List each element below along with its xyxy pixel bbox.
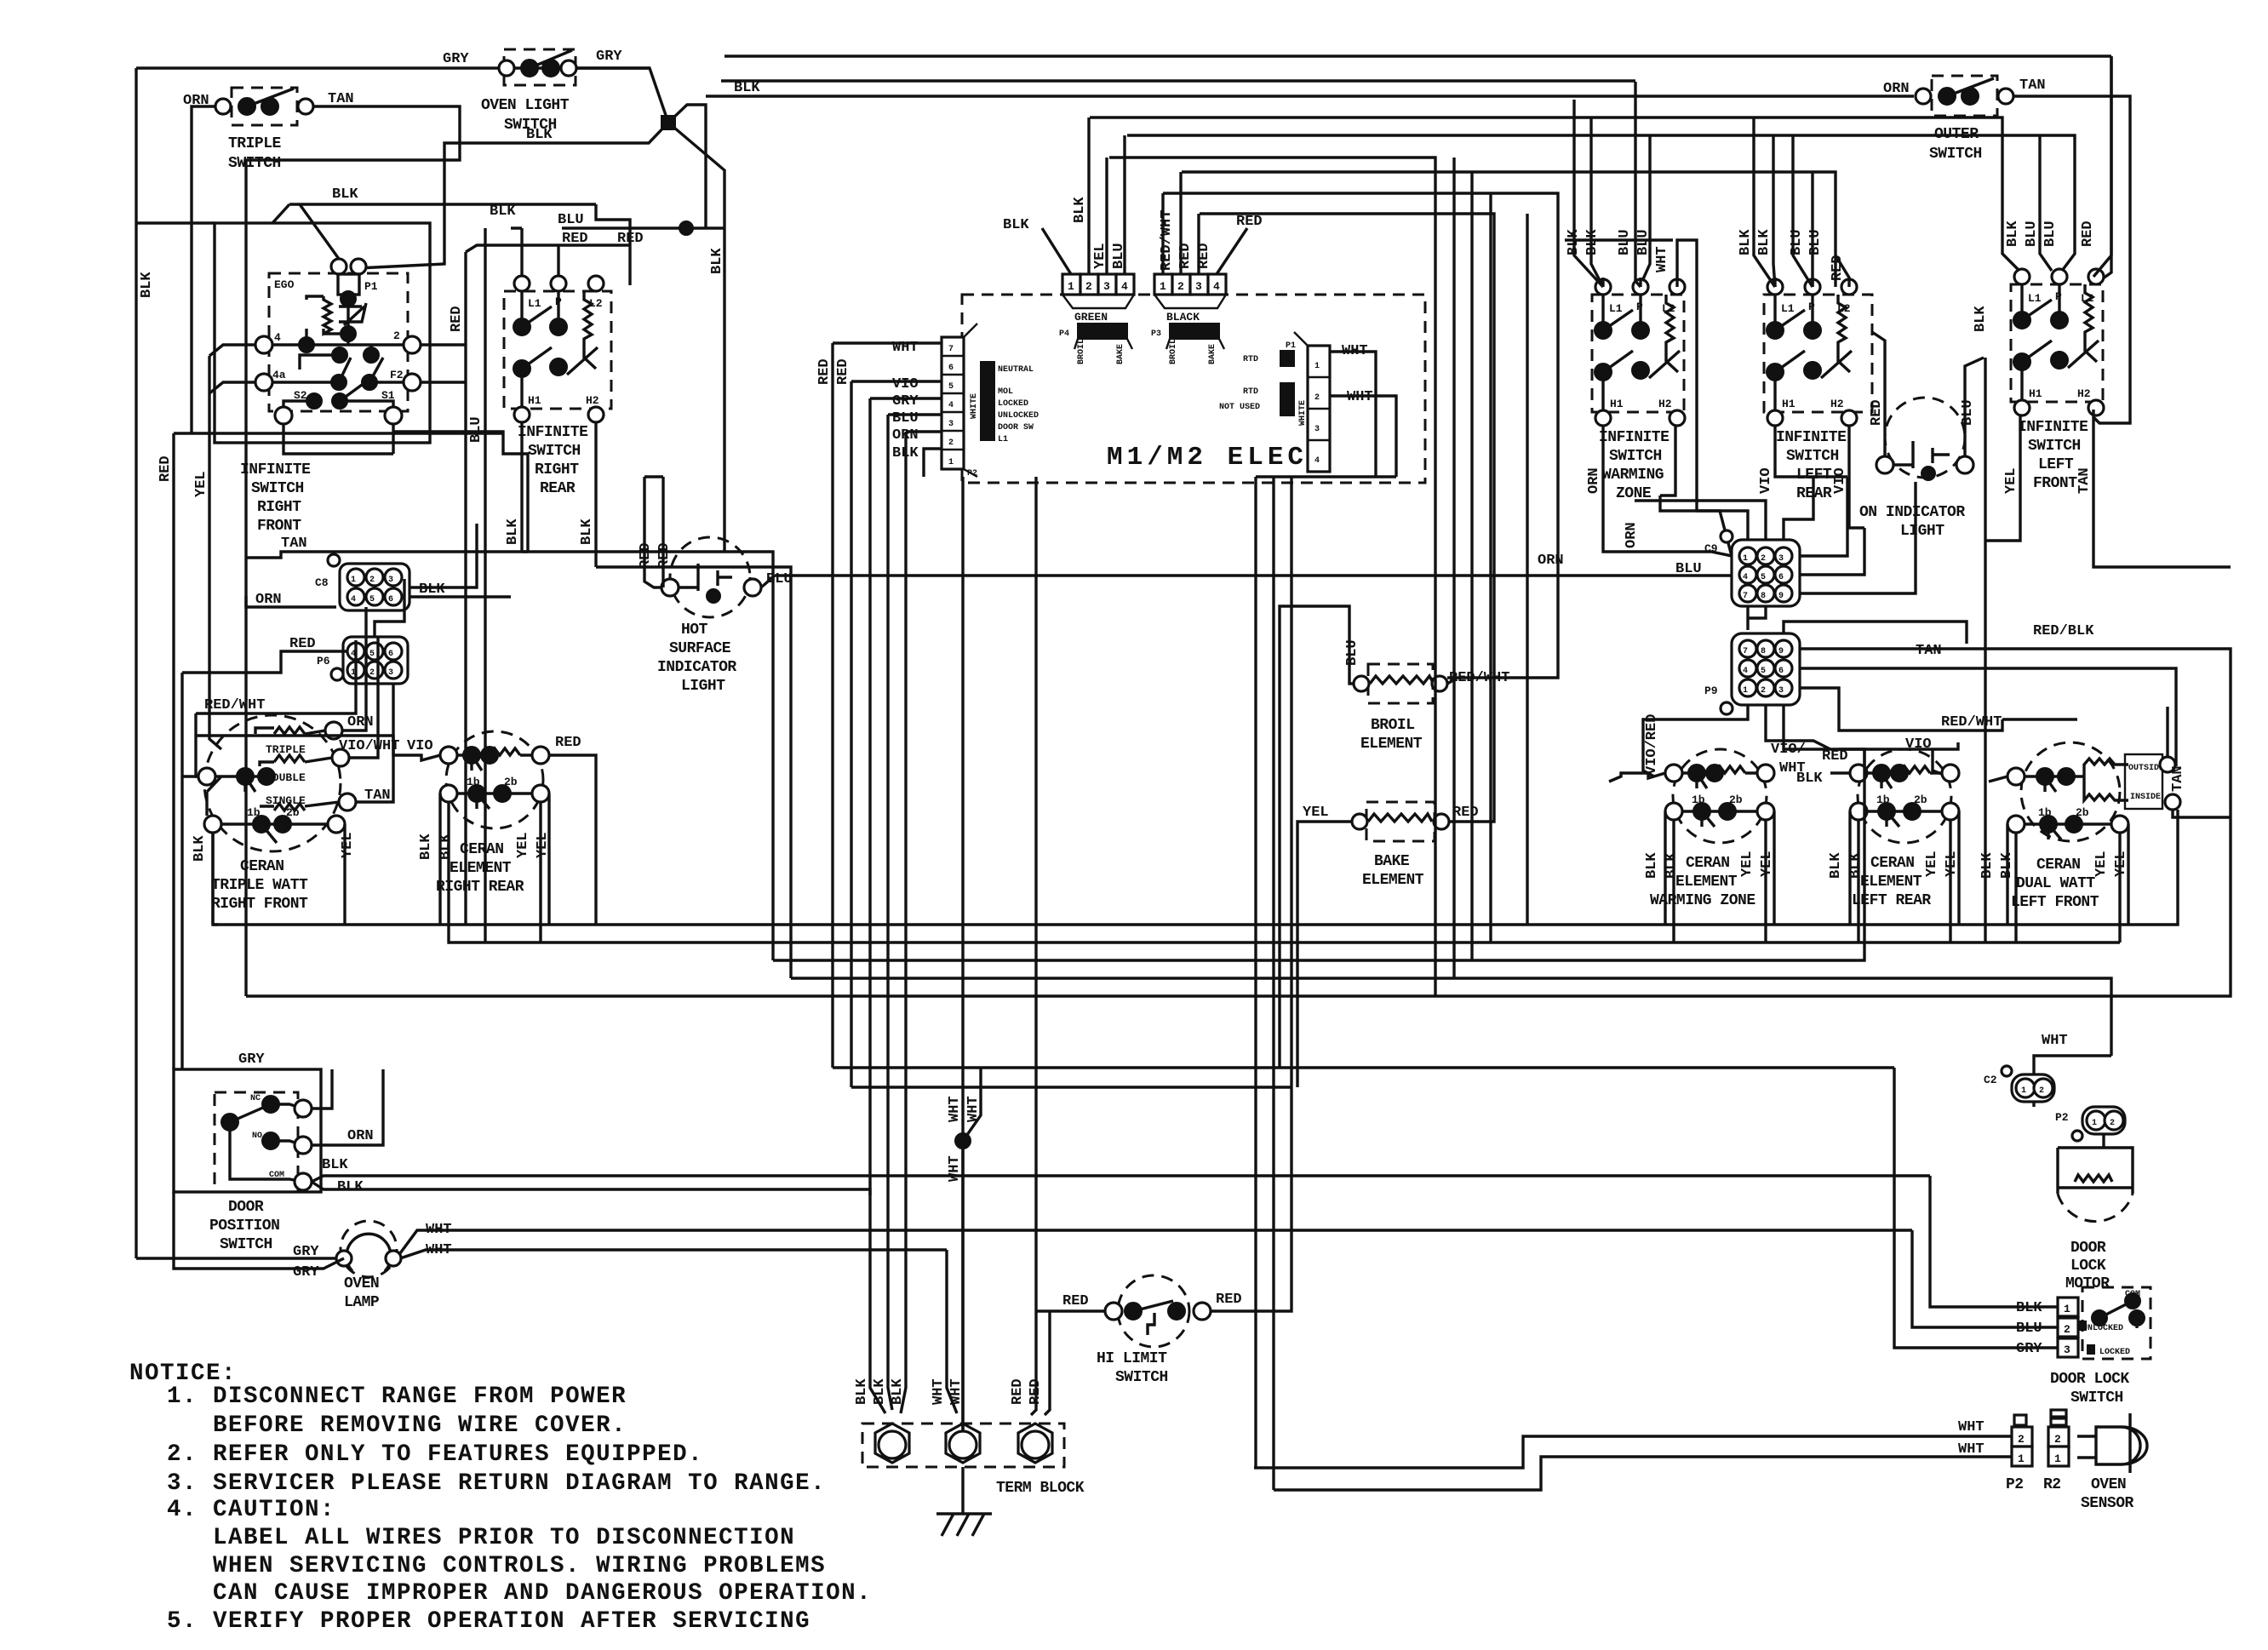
svg-text:RED/WHT: RED/WHT: [1159, 210, 1175, 271]
svg-text:RED: RED: [1216, 1292, 1242, 1308]
svg-text:2: 2: [1085, 280, 1092, 293]
svg-text:INFINITE: INFINITE: [2018, 419, 2088, 436]
outer switch: [1916, 76, 2013, 116]
terminal F2: [404, 374, 421, 391]
svg-text:H2: H2: [2077, 387, 2091, 400]
svg-text:3. SERVICER PLEASE RETURN DIAG: 3. SERVICER PLEASE RETURN DIAGRAM TO RAN…: [167, 1470, 826, 1497]
wires into GREEN connector: [1042, 117, 1125, 274]
svg-text:TRIPLE: TRIPLE: [228, 135, 282, 152]
svg-text:NOT USED: NOT USED: [1219, 403, 1260, 412]
svg-text:6: 6: [948, 364, 954, 373]
svg-text:P2: P2: [967, 469, 977, 478]
svg-text:RED: RED: [816, 358, 833, 385]
terminal L1 rr: [514, 276, 530, 291]
svg-text:3: 3: [1103, 280, 1110, 293]
junction X: [661, 116, 675, 129]
wires warming zone element: [1609, 773, 1774, 942]
connector P6: [331, 637, 408, 684]
broil element dashed box: [1368, 664, 1433, 703]
svg-text:CERAN: CERAN: [1870, 855, 1915, 872]
wire NO ORN right: [312, 1069, 383, 1145]
svg-text:P1: P1: [364, 280, 378, 293]
wire bus y113 BLK: [706, 95, 1914, 97]
node dot under P1: [341, 291, 356, 307]
wires into term block BLK: [870, 1176, 906, 1413]
terminal H2 rr: [588, 407, 604, 422]
svg-text:5. VERIFY PROPER OPERATION AFT: 5. VERIFY PROPER OPERATION AFTER SERVICI…: [167, 1608, 810, 1635]
svg-text:1b: 1b: [2038, 806, 2052, 819]
svg-text:4: 4: [1213, 280, 1220, 293]
svg-text:C8: C8: [315, 576, 329, 589]
svg-text:SWITCH: SWITCH: [528, 443, 581, 460]
svg-text:VIO/WHT: VIO/WHT: [339, 738, 399, 754]
svg-text:1: 1: [2064, 1303, 2070, 1315]
svg-text:LIGHT: LIGHT: [1900, 523, 1944, 540]
svg-text:P4: P4: [1059, 329, 1069, 339]
svg-text:GRY: GRY: [596, 49, 622, 65]
wire RED y288 bus: [466, 245, 596, 252]
infinite switch left rear: [1764, 295, 1872, 412]
svg-text:CERAN: CERAN: [460, 841, 504, 858]
svg-text:RED: RED: [157, 455, 174, 482]
EGO dashed box: [269, 273, 408, 411]
door position switch dashed box: [215, 1092, 298, 1192]
svg-text:6: 6: [1778, 667, 1784, 676]
wire hi limit right feed: [1211, 1087, 1291, 1311]
svg-text:SWITCH: SWITCH: [2028, 438, 2081, 455]
wire RED/WHT loop: [196, 640, 356, 776]
left rear element top row: [1850, 765, 1867, 782]
wire doorlock pins feeds: [1894, 1068, 2058, 1348]
wire warming H1 ORN: [1603, 427, 1732, 556]
svg-text:5: 5: [948, 382, 954, 392]
svg-text:SWITCH: SWITCH: [1929, 146, 1982, 163]
svg-text:RED: RED: [1236, 214, 1263, 230]
dual watt bottom row: [2007, 816, 2025, 833]
svg-text:RTD: RTD: [1243, 387, 1258, 397]
svg-text:1: 1: [1743, 554, 1748, 564]
svg-text:TAN: TAN: [2170, 765, 2186, 792]
ceran element left rear dashed circle: [1858, 749, 1951, 843]
svg-text:3: 3: [388, 668, 393, 678]
wire COM BLK right: [312, 1176, 1930, 1195]
svg-text:L2: L2: [2081, 292, 2094, 305]
wire center bundle x1475: [1254, 477, 1257, 1468]
connector C9: [1721, 530, 1800, 606]
svg-text:YEL: YEL: [2003, 467, 2019, 494]
svg-text:VIO: VIO: [1758, 467, 1774, 494]
svg-text:CAN CAUSE IMPROPER AND DANGERO: CAN CAUSE IMPROPER AND DANGEROUS OPERATI…: [213, 1580, 872, 1607]
svg-text:1: 1: [1068, 280, 1074, 293]
svg-text:RED: RED: [1452, 805, 1479, 821]
svg-text:BAKE: BAKE: [1208, 344, 1217, 364]
door position switch outer box: [174, 1069, 321, 1192]
svg-text:COM: COM: [269, 1171, 284, 1180]
wire WHT sensor lines: [1254, 1436, 2012, 1490]
svg-text:ORN: ORN: [1586, 467, 1602, 494]
connector P2 sensor: [2012, 1415, 2032, 1466]
svg-text:2: 2: [948, 438, 954, 448]
svg-text:BLK: BLK: [332, 186, 358, 203]
svg-text:GRY: GRY: [293, 1264, 319, 1280]
svg-text:1: 1: [1314, 362, 1320, 371]
connector BLACK 1-4: [1151, 274, 1226, 364]
svg-text:P2: P2: [2006, 1476, 2024, 1493]
svg-text:5: 5: [1761, 667, 1766, 676]
svg-text:TAN: TAN: [2019, 77, 2046, 94]
svg-text:4: 4: [948, 401, 954, 410]
element P1 body: [338, 274, 359, 295]
svg-text:BLK: BLK: [490, 203, 516, 220]
svg-text:WHITE: WHITE: [1298, 400, 1308, 426]
svg-text:SENSOR: SENSOR: [2081, 1495, 2134, 1512]
svg-text:1: 1: [1743, 686, 1748, 696]
svg-text:RTD: RTD: [1243, 355, 1258, 364]
terminal left indicator: [1876, 456, 1893, 473]
svg-text:CERAN: CERAN: [240, 858, 284, 875]
svg-text:R2: R2: [2043, 1476, 2061, 1493]
wires from right connector: [1330, 352, 1396, 477]
svg-text:INDICATOR: INDICATOR: [657, 659, 736, 676]
battery symbol: [679, 564, 732, 591]
svg-text:BAKE: BAKE: [1374, 853, 1410, 870]
svg-text:BLK: BLK: [139, 272, 155, 298]
svg-text:P: P: [1808, 301, 1815, 313]
wire bus y159 BLU: [1127, 135, 2075, 271]
wires around C9: [1635, 477, 1813, 540]
wire WHT x1131 long: [961, 477, 964, 1431]
svg-text:6: 6: [388, 595, 393, 604]
wire BLU bus y268: [562, 226, 724, 229]
svg-text:LABEL ALL WIRES PRIOR TO DISCO: LABEL ALL WIRES PRIOR TO DISCONNECTION: [213, 1525, 795, 1551]
terminal left: [661, 579, 679, 596]
svg-text:RED: RED: [562, 231, 588, 247]
svg-text:RED/WHT: RED/WHT: [1941, 714, 2002, 730]
svg-text:BLU: BLU: [1960, 399, 1976, 426]
content: [136, 49, 2111, 1258]
svg-text:RED: RED: [1028, 1378, 1044, 1405]
junction WHT dot: [955, 1133, 971, 1149]
warming bottom row: [1665, 803, 1682, 820]
svg-text:7: 7: [1743, 592, 1748, 601]
wire bundle x1022: [868, 398, 871, 1195]
svg-text:GRY: GRY: [892, 393, 919, 410]
wire bus y251 RED: [1200, 214, 1494, 822]
svg-text:BLK: BLK: [192, 835, 208, 862]
wire RED vertical x547: [464, 252, 467, 925]
svg-text:BLK: BLK: [337, 1179, 364, 1195]
svg-text:FRONT: FRONT: [2033, 475, 2077, 492]
wire left rear L1 feeds: [1754, 117, 1775, 287]
wire S2 down to bus: [282, 424, 284, 432]
variable resistor arrow EGO: [339, 303, 366, 325]
wire warming second BLK: [1591, 117, 1603, 287]
infinite switch right rear dashed box: [504, 291, 611, 409]
svg-text:4: 4: [274, 331, 281, 344]
svg-text:SWITCH: SWITCH: [228, 155, 281, 172]
wire RED vertical x204: [172, 433, 175, 1069]
svg-text:INSIDE: INSIDE: [2130, 793, 2161, 802]
lug 1: [875, 1424, 909, 1463]
svg-text:BAKE: BAKE: [1116, 344, 1125, 364]
svg-text:LIGHT: LIGHT: [681, 678, 725, 695]
svg-text:ELEMENT: ELEMENT: [1362, 872, 1424, 889]
svg-text:HOT: HOT: [681, 622, 708, 639]
svg-text:L1: L1: [1781, 302, 1795, 315]
wire right border down: [2099, 56, 2111, 281]
wire BLU vertical x570: [484, 228, 486, 942]
wire RED into P6: [182, 579, 404, 1069]
ceran dual watt left front dashed circle: [2021, 742, 2120, 841]
wire bundle x978: [831, 343, 833, 1068]
connector R2 sensor: [2048, 1410, 2069, 1466]
svg-text:2b: 2b: [1914, 793, 1927, 806]
svg-text:INFINITE: INFINITE: [1776, 429, 1847, 446]
svg-text:4: 4: [1743, 573, 1748, 582]
svg-text:UNLOCKED: UNLOCKED: [2082, 1324, 2123, 1333]
svg-text:P3: P3: [1151, 329, 1161, 339]
svg-text:H1: H1: [1782, 398, 1795, 410]
wire triple left contacts: [182, 776, 345, 925]
svg-text:2: 2: [2018, 1433, 2025, 1446]
wire rr H wires right: [522, 552, 791, 978]
wire feeds to right rear switch terminals: [511, 228, 630, 285]
wires into warming terminals: [1603, 240, 1732, 556]
svg-text:2. REFER ONLY TO FEATURES EQUI: 2. REFER ONLY TO FEATURES EQUIPPED.: [167, 1441, 703, 1468]
svg-text:BLU: BLU: [892, 410, 919, 427]
svg-text:S1: S1: [381, 389, 395, 402]
rr element bottom row: [440, 785, 457, 802]
svg-text:YEL: YEL: [340, 832, 356, 858]
svg-text:LAMP: LAMP: [344, 1294, 380, 1311]
bake element dashed box: [1366, 802, 1435, 841]
wire bus y227 RED/WHT: [1163, 193, 1558, 678]
wire H1 rr down BLK: [520, 422, 523, 552]
door lock switch dashed box: [2082, 1287, 2151, 1359]
svg-text:ELEMENT: ELEMENT: [450, 860, 512, 877]
wire bus y1254: [833, 1066, 1894, 1068]
wire left rear P feeds: [1793, 135, 1813, 287]
svg-text:1b: 1b: [1876, 793, 1890, 806]
svg-text:REAR: REAR: [540, 480, 576, 497]
connector P9: [1721, 633, 1800, 714]
wire BLK y645 from EGO area down: [503, 447, 528, 552]
svg-text:L1: L1: [2028, 292, 2042, 305]
svg-text:UNLOCKED: UNLOCKED: [998, 411, 1039, 421]
svg-text:BLU: BLU: [1344, 639, 1360, 666]
svg-text:2: 2: [369, 576, 375, 585]
svg-text:INFINITE: INFINITE: [240, 461, 311, 478]
svg-text:POSITION: POSITION: [209, 1217, 279, 1235]
wire row 4 to 2: [272, 345, 404, 353]
svg-text:1: 1: [2018, 1452, 2025, 1465]
svg-text:WHT: WHT: [2042, 1033, 2068, 1049]
terminal S1: [385, 407, 402, 424]
wire S1 down: [393, 424, 503, 447]
right connector P1 stack: [1219, 332, 1330, 472]
dps contacts: [262, 1096, 279, 1113]
wire YEL vertical x246: [209, 356, 221, 749]
svg-text:3: 3: [1778, 686, 1784, 696]
svg-text:BROIL: BROIL: [1169, 339, 1178, 364]
rr element top row: [440, 747, 457, 764]
wire RED feeds to hot surface: [644, 477, 663, 587]
svg-text:BLK: BLK: [890, 1378, 906, 1405]
svg-text:SWITCH: SWITCH: [220, 1236, 272, 1253]
svg-text:NC: NC: [250, 1094, 261, 1103]
svg-text:1: 1: [1160, 280, 1166, 293]
svg-text:H2: H2: [1830, 398, 1844, 410]
svg-text:4: 4: [1121, 280, 1128, 293]
svg-text:BEFORE REMOVING WIRE COVER.: BEFORE REMOVING WIRE COVER.: [213, 1412, 627, 1439]
terminal 4: [255, 336, 272, 353]
terminal TAN: [339, 793, 356, 811]
wire WHT from lamp: [400, 1230, 1912, 1258]
on indicator light dashed circle: [1885, 398, 1965, 478]
svg-text:BLK: BLK: [1072, 197, 1088, 223]
svg-text:BLK: BLK: [854, 1378, 870, 1405]
svg-text:H1: H1: [528, 394, 541, 407]
svg-text:5: 5: [369, 595, 375, 604]
svg-text:VIO/RED: VIO/RED: [1644, 714, 1660, 775]
wire bus horizontal y1086: [213, 810, 2178, 925]
terminal P1 right: [351, 259, 366, 274]
svg-text:2: 2: [2110, 1119, 2115, 1128]
svg-text:RED: RED: [1177, 243, 1194, 269]
svg-text:1: 1: [351, 576, 356, 585]
svg-text:BLU: BLU: [1111, 243, 1127, 269]
oven lamp solid arc: [346, 1234, 391, 1271]
svg-text:6: 6: [388, 650, 393, 659]
wire bus y95: [721, 79, 1635, 82]
svg-text:4: 4: [1743, 667, 1748, 676]
door lock switch contacts: [2092, 1310, 2107, 1326]
svg-text:LOCKED: LOCKED: [998, 399, 1028, 409]
wire broil left riser: [1447, 678, 1458, 684]
lamp terminals: [336, 1251, 352, 1266]
svg-text:3: 3: [2064, 1343, 2070, 1356]
dual watt resistor box: [2066, 759, 2128, 800]
svg-text:2: 2: [1761, 554, 1766, 564]
svg-text:WHITE: WHITE: [970, 393, 979, 419]
svg-text:L2: L2: [1662, 302, 1675, 315]
svg-text:1b: 1b: [1692, 793, 1705, 806]
wire y117 to warming L1: [1574, 100, 1603, 287]
svg-text:C2: C2: [1984, 1074, 1997, 1086]
svg-text:BLK: BLK: [2005, 221, 2021, 247]
bottom switch row triple: [204, 816, 221, 833]
wire BLK S1 bottom bus: [283, 432, 393, 454]
svg-text:BLK: BLK: [1756, 229, 1773, 255]
svg-text:OVEN: OVEN: [344, 1275, 379, 1292]
svg-text:9: 9: [1778, 647, 1784, 656]
wire y96 to warming P: [1635, 82, 1641, 287]
wire bus horizontal y1107: [449, 941, 2120, 943]
svg-text:8: 8: [1761, 592, 1766, 601]
wires from P2 pins to left bundle: [833, 343, 942, 477]
connector P2 doorlock: [2072, 1107, 2125, 1141]
svg-text:BLK: BLK: [1003, 217, 1029, 233]
svg-text:P: P: [1636, 301, 1643, 313]
svg-text:BLK: BLK: [526, 127, 553, 143]
triple switch SW: [215, 88, 313, 125]
svg-text:BLU: BLU: [1617, 229, 1633, 255]
wire WHT diag: [963, 1068, 981, 1141]
wires left rear element: [1830, 773, 1959, 942]
svg-text:2b: 2b: [1729, 793, 1743, 806]
wire bus y185 YEL: [1109, 158, 1435, 996]
svg-text:BLU: BLU: [2024, 221, 2040, 247]
wire VIO from P9 to left rear ceran: [1839, 742, 1958, 776]
wire bus horizontal y1149: [791, 978, 2111, 1056]
wire left rear H1 VIO: [1775, 427, 1847, 477]
svg-text:3: 3: [1314, 425, 1320, 434]
wire bundle x1751: [1489, 193, 1492, 942]
svg-text:S2: S2: [294, 389, 307, 402]
wires dual watt element: [1989, 707, 2231, 942]
svg-text:3: 3: [388, 576, 393, 585]
wire BLK from C8 right: [409, 524, 511, 597]
left connector P2 stack 1-7: [942, 324, 1039, 478]
svg-text:2: 2: [2039, 1086, 2044, 1096]
svg-text:BLK: BLK: [1828, 852, 1844, 879]
svg-text:TERM BLOCK: TERM BLOCK: [996, 1480, 1085, 1497]
svg-text:ORN: ORN: [1624, 522, 1640, 548]
terminal H1 rr: [514, 407, 530, 422]
wire X to SE vertical: [668, 123, 724, 552]
wire BLK x250 to bus: [211, 833, 214, 925]
svg-text:7: 7: [1743, 647, 1748, 656]
svg-text:F2: F2: [390, 369, 404, 381]
svg-text:2: 2: [369, 668, 375, 678]
wire ORN from triple: [305, 607, 393, 806]
lug 3: [1018, 1424, 1052, 1463]
svg-text:1: 1: [2092, 1119, 2097, 1128]
hot surface indicator dashed circle: [670, 537, 750, 617]
wire hi limit left feed: [1031, 477, 1105, 1415]
wires into BLACK connector: [1163, 172, 1247, 274]
oven lamp dashed circle: [341, 1221, 397, 1277]
svg-text:DOOR LOCK: DOOR LOCK: [2050, 1371, 2129, 1388]
svg-text:5: 5: [1761, 573, 1766, 582]
svg-text:BLK: BLK: [872, 1378, 888, 1405]
svg-text:6: 6: [1778, 573, 1784, 582]
lug 2: [946, 1424, 980, 1463]
dual watt contacts: [2007, 768, 2025, 785]
wire X to top bus: [668, 105, 706, 228]
svg-text:INFINITE: INFINITE: [518, 424, 588, 441]
svg-text:BLK: BLK: [1796, 771, 1823, 787]
wire rr bottoms: [440, 793, 549, 942]
svg-text:GREEN: GREEN: [1074, 311, 1108, 324]
svg-text:2b: 2b: [2076, 806, 2089, 819]
svg-text:TRIPLE: TRIPLE: [266, 743, 306, 756]
wire bundle x1064: [904, 432, 907, 1230]
wires from P9 bottom rows: [1643, 688, 2077, 776]
svg-text:BLK: BLK: [418, 834, 434, 860]
svg-text:L1: L1: [528, 297, 541, 310]
svg-text:YEL: YEL: [1739, 851, 1755, 877]
svg-text:GRY: GRY: [238, 1051, 265, 1068]
wire YEL bake loop: [1297, 822, 1352, 1087]
svg-text:BLK: BLK: [1973, 306, 1989, 332]
svg-text:RED: RED: [835, 358, 851, 385]
wire bus horizontal y1128: [773, 749, 1864, 960]
svg-text:CERAN: CERAN: [1686, 855, 1730, 872]
svg-text:RED: RED: [2080, 221, 2096, 247]
wire bundle x1000: [850, 381, 852, 1087]
wire left front H1 YEL: [1985, 416, 2020, 541]
